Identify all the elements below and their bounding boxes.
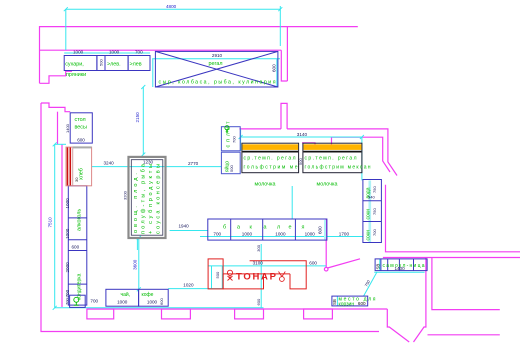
pilaster 2 xyxy=(162,309,191,319)
svg-text:600: 600 xyxy=(358,301,366,306)
svg-text:весы: весы xyxy=(75,124,87,130)
scales icon green xyxy=(74,297,79,305)
dim 3240-1230-2770 line xyxy=(92,166,222,168)
extension band grocery right cell xyxy=(324,220,326,240)
svg-text:1000: 1000 xyxy=(242,232,253,237)
wire niche wall right part xyxy=(287,129,397,176)
dim milk tick xyxy=(291,186,293,220)
TONAR text xyxy=(227,270,285,282)
egg box xyxy=(221,152,240,174)
svg-text:750: 750 xyxy=(372,208,377,215)
wire left outer wall xyxy=(41,103,379,332)
svg-text:3140: 3140 xyxy=(297,132,308,137)
wire top outer wall xyxy=(40,27,358,84)
svg-text:2000: 2000 xyxy=(65,262,70,273)
wire right lower corridor outer xyxy=(414,258,426,343)
svg-text:1000: 1000 xyxy=(117,300,128,305)
svg-text:700: 700 xyxy=(135,50,143,55)
svg-text:SB: SB xyxy=(376,264,381,270)
svg-text:1230: 1230 xyxy=(143,160,154,165)
svg-text:30: 30 xyxy=(74,177,79,182)
pillar column xyxy=(281,103,287,128)
svg-text:хлеб: хлеб xyxy=(79,168,85,180)
svg-text:регал: регал xyxy=(209,61,223,67)
wire bottom right outside wall xyxy=(428,334,500,336)
wire fixture recess wiggle xyxy=(302,137,332,145)
svg-text:700: 700 xyxy=(232,136,237,143)
wire right wall top vertical outer xyxy=(286,27,288,81)
svg-text:е: е xyxy=(289,225,292,231)
svg-text:500: 500 xyxy=(298,158,303,165)
wire bottom inner wall face xyxy=(87,308,387,310)
dim 1020 line xyxy=(168,288,222,290)
svg-text:соки: соки xyxy=(366,230,372,241)
svg-text:1000: 1000 xyxy=(73,50,84,55)
wire niche wall left part xyxy=(239,128,281,130)
wire right wall mid vertical xyxy=(386,185,520,252)
svg-text:а: а xyxy=(264,225,267,231)
dim 4800 line xyxy=(66,8,280,10)
basket place box xyxy=(332,296,368,306)
alco stack outline xyxy=(68,186,87,305)
svg-text:1020: 1020 xyxy=(183,283,194,288)
split unit icon green xyxy=(225,126,229,133)
dim bottom line xyxy=(55,307,264,309)
svg-text:кофе: кофе xyxy=(142,292,154,298)
tea coffee boxes xyxy=(106,289,139,306)
wire left wall lower segment xyxy=(41,103,70,112)
svg-text:1940: 1940 xyxy=(179,224,190,229)
dairy fixture right xyxy=(303,143,362,173)
wire door leaf diagonal xyxy=(328,259,361,268)
samokl box xyxy=(375,259,427,271)
svg-text:>лев.: >лев. xyxy=(107,62,121,68)
svg-text:а: а xyxy=(237,225,240,231)
split box xyxy=(221,127,240,151)
pilaster 3 xyxy=(235,309,264,319)
svg-text:600: 600 xyxy=(77,137,85,142)
dim basket box tick xyxy=(336,296,338,306)
dim left 7510 vertical xyxy=(54,144,56,307)
wire left wall upper door jamb xyxy=(40,71,73,83)
grocery row boxes xyxy=(208,219,327,240)
svg-text:молочка: молочка xyxy=(317,181,338,187)
svg-text:я: я xyxy=(302,225,305,231)
dim fixture tick xyxy=(136,238,138,250)
svg-text:700: 700 xyxy=(372,229,377,236)
svg-text:700: 700 xyxy=(90,299,98,304)
pilaster 1 xyxy=(87,309,114,319)
FIXTURES xyxy=(64,51,427,307)
svg-text:700: 700 xyxy=(65,298,70,305)
svg-text:1000: 1000 xyxy=(275,232,286,237)
dim 2150 vertical xyxy=(142,87,144,155)
dim basket diagonal xyxy=(364,272,378,296)
svg-text:б: б xyxy=(223,225,226,231)
shelf hleb2 box xyxy=(128,56,150,71)
wire right wall inner parallel xyxy=(383,257,520,259)
svg-text:1400: 1400 xyxy=(395,266,406,271)
svg-text:4800: 4800 xyxy=(166,4,177,9)
svg-text:2150: 2150 xyxy=(135,112,140,123)
svg-text:молочка: молочка xyxy=(255,181,276,187)
water juice stack xyxy=(363,180,382,243)
dim regal line xyxy=(152,58,280,60)
bread rack fixture xyxy=(66,146,92,185)
figure symbol left xyxy=(227,270,232,280)
node column circle xyxy=(324,267,328,271)
svg-text:2770: 2770 xyxy=(188,161,199,166)
GREEN LABELS xyxy=(65,61,425,307)
dim 1940 line xyxy=(170,230,208,232)
svg-text:чай,: чай, xyxy=(121,291,131,298)
dim samokl line xyxy=(374,271,424,273)
svg-text:500: 500 xyxy=(215,271,220,278)
dim tick slashes xyxy=(53,7,364,310)
svg-text:600: 600 xyxy=(72,245,80,250)
dim top shelves line xyxy=(64,52,150,54)
dim 3600 vertical xyxy=(138,238,140,289)
scales icon box xyxy=(70,295,86,307)
svg-text:700: 700 xyxy=(213,232,221,237)
DIMENSION TEXTS xyxy=(48,4,406,306)
wire inner face along shelves xyxy=(61,144,63,307)
svg-text:корзин: корзин xyxy=(339,302,355,308)
wire entrance left jamb xyxy=(387,309,409,342)
DIMENSIONS (cyan) xyxy=(55,6,425,308)
table scales box xyxy=(70,113,92,143)
hitch symbol right xyxy=(279,272,286,282)
central gondola fixture xyxy=(129,157,166,238)
svg-text:ср.темп. регал: ср.темп. регал xyxy=(244,156,296,162)
shelf narrow box xyxy=(97,56,105,71)
svg-text:3600: 3600 xyxy=(133,259,138,270)
svg-text:сухари,: сухари, xyxy=(65,62,84,68)
svg-text:600: 600 xyxy=(272,64,277,72)
svg-text:2910: 2910 xyxy=(212,53,223,58)
svg-text:1000: 1000 xyxy=(65,228,70,239)
dim hleb tick xyxy=(55,143,66,145)
svg-text:600: 600 xyxy=(309,261,317,266)
svg-text:500: 500 xyxy=(99,59,104,66)
wire top inner wall face xyxy=(40,49,282,51)
svg-text:600: 600 xyxy=(256,298,261,305)
svg-text:л: л xyxy=(277,225,280,231)
svg-text:3240: 3240 xyxy=(104,161,115,166)
dim samokl cell tick xyxy=(379,259,381,271)
dim 1700 row line xyxy=(200,236,363,238)
svg-text:600: 600 xyxy=(159,298,164,305)
dairy fixture left xyxy=(242,143,299,173)
extension band water stack xyxy=(368,181,371,243)
svg-text:7510: 7510 xyxy=(48,217,53,228)
svg-text:1000: 1000 xyxy=(109,50,120,55)
svg-text:гольфстрим ме: гольфстрим ме xyxy=(244,165,298,171)
shelf suhari box xyxy=(64,56,97,71)
svg-text:1700: 1700 xyxy=(339,231,350,236)
svg-text:алкоголь: алкоголь xyxy=(77,209,83,231)
regal crossed box xyxy=(155,51,278,87)
tonar trailer red drawing xyxy=(208,259,306,289)
svg-text:750: 750 xyxy=(372,186,377,193)
svg-text:стол: стол xyxy=(75,117,86,123)
dim 3140 line xyxy=(241,136,362,138)
dim tonar line xyxy=(208,265,326,267)
svg-text:1400: 1400 xyxy=(65,123,70,133)
svg-text:600: 600 xyxy=(317,226,322,234)
wire niche inner face xyxy=(331,137,390,172)
svg-text:SB: SB xyxy=(332,299,337,305)
svg-text:1000: 1000 xyxy=(147,300,158,305)
svg-text:300: 300 xyxy=(256,244,261,251)
shelf hleb1 box xyxy=(105,56,128,71)
svg-text:700: 700 xyxy=(65,289,70,297)
svg-text:кондитерка: кондитерка xyxy=(77,273,83,300)
wire right lower corridor inner xyxy=(432,258,500,310)
pilaster 4 xyxy=(304,309,333,319)
svg-text:500: 500 xyxy=(229,165,234,172)
svg-text:1000: 1000 xyxy=(65,198,70,209)
svg-text:соки: соки xyxy=(366,209,372,220)
svg-text:1000: 1000 xyxy=(305,232,316,237)
svg-text:3100: 3100 xyxy=(253,261,264,266)
wire right wall top vertical inner xyxy=(281,50,287,81)
svg-text:ср.темп. регал: ср.темп. регал xyxy=(305,156,357,162)
svg-text:>лев: >лев xyxy=(130,62,142,68)
svg-text:пряники: пряники xyxy=(66,72,86,78)
wire column riser xyxy=(325,220,327,268)
svg-text:3200: 3200 xyxy=(122,190,127,200)
wire inner face left column xyxy=(57,112,59,145)
svg-text:540: 540 xyxy=(368,195,375,200)
